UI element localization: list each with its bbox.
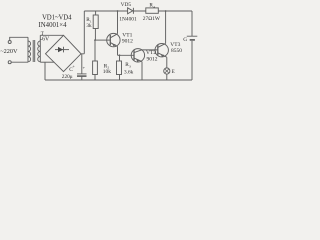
svg-text:220μ: 220μ (62, 74, 73, 80)
svg-text:VD1~VD4: VD1~VD4 (42, 14, 72, 21)
svg-text:27Ω1W: 27Ω1W (143, 16, 161, 22)
svg-text:1N4001: 1N4001 (119, 16, 137, 22)
svg-text:8550: 8550 (171, 48, 182, 54)
svg-text:IN4001×4: IN4001×4 (39, 22, 68, 29)
svg-text:10k: 10k (103, 69, 112, 75)
svg-text:3.6k: 3.6k (124, 69, 134, 75)
svg-text:9012: 9012 (147, 56, 158, 62)
svg-text:3: 3 (129, 65, 131, 69)
svg-text:4: 4 (153, 5, 155, 9)
svg-text:VT2: VT2 (146, 50, 156, 56)
svg-text:T: T (41, 32, 44, 37)
svg-text:3k: 3k (86, 23, 92, 29)
svg-text:E: E (172, 69, 175, 75)
svg-text:-6V: -6V (40, 36, 50, 42)
svg-text:9012: 9012 (122, 38, 133, 44)
svg-text:G: G (183, 37, 187, 43)
svg-text:~220V: ~220V (0, 48, 18, 55)
svg-text:VD5: VD5 (121, 2, 132, 8)
svg-text:VT3: VT3 (170, 42, 180, 48)
